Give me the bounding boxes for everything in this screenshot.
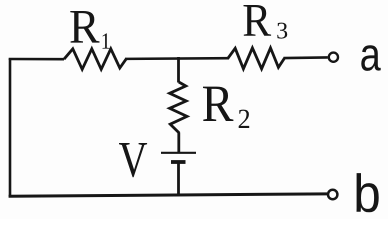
resistor R3 — [228, 48, 285, 69]
resistor R1 — [64, 49, 126, 70]
battery V plates — [161, 153, 196, 162]
wire left side — [9, 59, 12, 197]
label R2 text — [203, 87, 249, 128]
label R1 text — [70, 11, 109, 49]
node a label — [361, 45, 380, 71]
label R3 text — [244, 5, 288, 39]
wire top-middle segment — [125, 57, 229, 60]
resistor R2 — [170, 82, 187, 133]
label V text — [119, 143, 147, 177]
wire top-left segment — [10, 59, 64, 60]
terminal b — [328, 190, 337, 199]
wire junction to R2 — [177, 57, 180, 83]
terminal a — [329, 53, 338, 62]
node b label — [357, 173, 379, 212]
wire battery to bottom — [177, 162, 180, 196]
wire R2 to battery — [177, 133, 180, 153]
wire bottom segment — [9, 194, 327, 196]
wire to terminal a — [284, 56, 328, 59]
